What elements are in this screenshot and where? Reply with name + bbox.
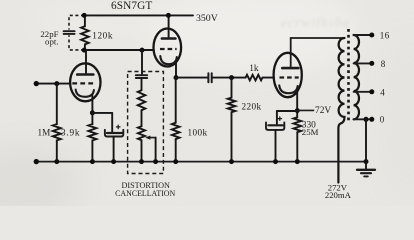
capacitor output bypass cup [266,122,284,129]
resistor 1M [56,84,58,125]
ground symbol [365,162,367,170]
svg-text:0: 0 [380,115,385,125]
secondary tap 8 [354,62,370,64]
node tap to distortion network [140,48,145,53]
junction rail/120k [82,13,87,18]
wire bottom ground rail [36,161,366,163]
V1b plate [162,37,176,40]
svg-text:4: 4 [380,87,385,97]
capacitor C bypass cup [105,130,123,137]
svg-text:1k: 1k [249,64,259,74]
svg-text:6SN7GT: 6SN7GT [111,0,152,12]
wire output plate lead [291,38,345,68]
svg-text:120k: 120k [92,30,113,40]
wire V1a cathode lead [91,96,93,113]
label + output cap [278,117,282,121]
node input terminal [34,81,39,86]
node 72V pointer [297,109,313,111]
output tube plate [282,67,298,70]
junction rail dots [54,159,59,164]
svg-text:3.9k: 3.9k [61,127,80,137]
transformer primary [338,38,344,183]
wire to bypass cap [92,112,112,114]
resistor DC network upper [141,78,143,90]
output tube envelope [274,53,302,97]
wire 0-tap to ground [365,119,367,161]
wire input to V1a grid [36,83,70,85]
svg-text:72V: 72V [315,106,331,116]
svg-text:opt.: opt. [45,37,58,47]
output tube cathode [279,85,297,93]
wire V1b cathode lead [175,62,177,77]
junction V1a cathode [90,110,95,115]
wire output cathode lead [296,92,298,117]
secondary tap 16 [354,34,370,36]
V1b grid [160,48,177,50]
op triode V1a envelope [70,63,100,101]
wire dashed link 22pF top [69,15,84,29]
svg-text:CANCELLATION: CANCELLATION [115,189,175,198]
svg-text:ecrwilhvbe: ecrwilhvbe [281,15,350,30]
V1a plate [77,73,93,76]
svg-text:8: 8 [381,59,386,69]
triode V1b envelope [154,29,182,67]
wire B+ top rail [84,14,193,16]
capacitor DC network [136,74,147,76]
V1a grid [72,82,93,84]
wire pot wiper [149,137,156,139]
svg-text:25M: 25M [302,127,319,137]
junction V1b cathode node [174,75,179,80]
capacitor coupling [207,73,209,82]
potentiometer DC network [138,126,145,140]
junction output cathode node [295,108,300,113]
resistor 1k [246,75,263,81]
wire cap to 1k [213,77,246,79]
wire tube1 plate to tube2 grid [84,49,154,51]
label + [116,125,120,129]
resistor 330 25W [294,117,302,132]
capacitor C bypass plate [107,132,122,134]
svg-text:220mA: 220mA [325,190,352,200]
wire to output bypass cap [277,110,297,112]
resistor 3.9k [91,113,93,124]
resistor 100k [175,78,177,123]
wire V1b plate lead [168,15,170,38]
dashed box distortion cancellation [128,72,164,174]
svg-text:350V: 350V [196,13,218,24]
node ground terminal left [34,159,39,164]
V1b cathode [160,56,177,64]
svg-text:100k: 100k [188,127,208,137]
wire grid2 tap down [141,50,143,74]
V1a cathode [76,90,94,97]
junction rail/V1b plate [166,13,171,18]
wire output cap to rail [275,130,277,162]
secondary tap 4 [354,91,370,93]
wire cap to rail [113,137,115,162]
wire V1a plate lead [85,50,87,74]
resistor 220k [231,78,233,98]
transformer secondary [354,35,359,119]
junction grid/1M [54,81,59,86]
capacitor 22pF [64,30,75,32]
svg-text:1M: 1M [38,127,51,137]
svg-text:16: 16 [380,30,390,40]
transformer core [347,29,350,121]
resistor 120k [84,15,86,26]
junction 220k tap [229,75,234,80]
wire dashed link 22pF bottom [69,35,84,50]
wire cathode to coupling cap [176,77,207,79]
output tube grid [280,76,299,78]
secondary tap 0 [354,118,370,120]
svg-text:220k: 220k [242,101,262,111]
capacitor output bypass plate [268,124,282,126]
